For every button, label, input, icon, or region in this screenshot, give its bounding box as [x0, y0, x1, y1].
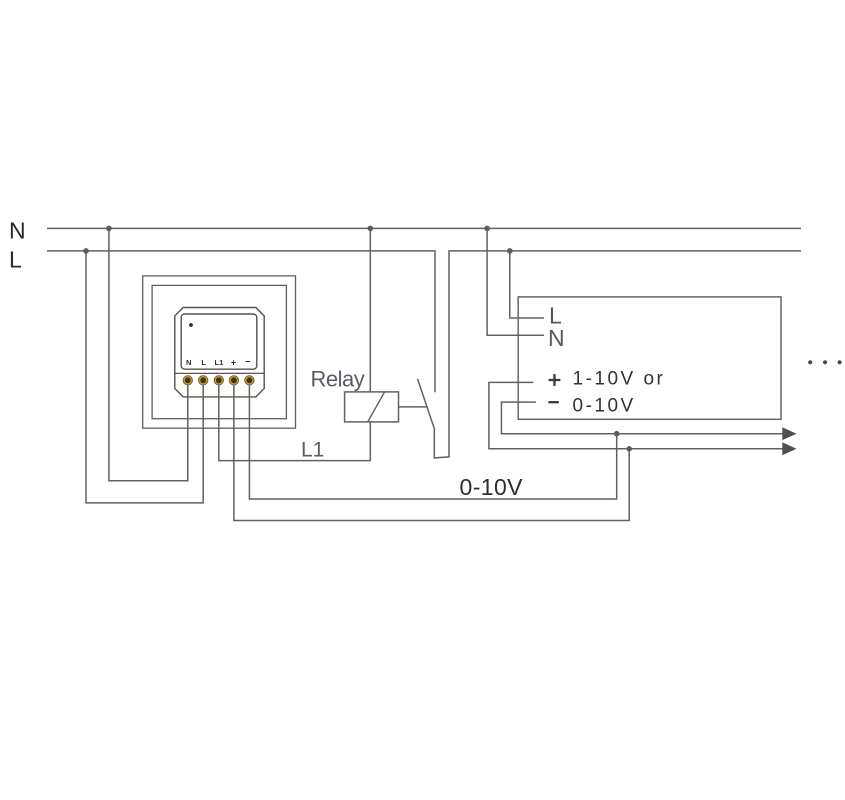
arrow head upper — [782, 427, 796, 440]
module U1 top panel — [181, 314, 257, 369]
svg-text:+: + — [231, 357, 236, 367]
terminal 3 (L1) — [214, 376, 223, 385]
junction N bus / relay feed — [368, 226, 374, 232]
terminal 5 (-) — [245, 376, 254, 385]
svg-text:L: L — [201, 358, 206, 367]
wire driver + pin to lower arrow line — [489, 382, 793, 448]
svg-text:L1: L1 — [301, 439, 324, 462]
junction on upper arrow line — [614, 431, 620, 437]
relay K1 diagonal — [368, 392, 385, 422]
switch S1 blade — [418, 379, 435, 430]
svg-text:N: N — [186, 358, 191, 367]
wire relay K1 output to switch blade — [399, 406, 428, 408]
relay K1 box — [345, 392, 399, 422]
svg-text:N: N — [548, 325, 565, 351]
svg-text:L: L — [9, 247, 22, 273]
wire terminal + to lower arrow line — [234, 385, 629, 521]
ellipsis continuation dots — [808, 360, 842, 364]
module U1 terminal strip line — [175, 372, 264, 374]
terminal 1 (N) — [183, 376, 192, 385]
wire terminal - to upper arrow line — [249, 385, 616, 499]
wire terminal L1 to relay K1 — [219, 385, 370, 461]
wire terminal L to L bus — [86, 251, 203, 503]
junction N bus / terminal N wire — [106, 226, 112, 232]
wire L bus to driver L pin — [510, 251, 544, 318]
svg-text:−: − — [245, 356, 250, 366]
junction on lower arrow line — [626, 446, 632, 452]
module U1 LED dot — [189, 323, 193, 327]
driver pin symbol - — [548, 401, 558, 403]
svg-text:0-10V: 0-10V — [460, 474, 524, 500]
wire driver - pin to upper arrow line — [501, 402, 793, 434]
wire L bus right segment with switch pole — [434, 251, 801, 458]
module U1 body octagon — [175, 308, 264, 397]
wire N bus to driver N pin — [487, 228, 544, 335]
junction L bus / driver L wire — [507, 248, 513, 254]
junction N bus / driver N wire — [484, 226, 490, 232]
svg-text:Relay: Relay — [311, 367, 365, 392]
driver pin symbol + — [549, 374, 561, 386]
svg-text:1-10V or: 1-10V or — [573, 368, 666, 389]
wire L bus left segment to switch fixed contact — [47, 251, 435, 392]
svg-text:L1: L1 — [214, 358, 224, 367]
arrow head lower — [782, 442, 796, 455]
wire relay K1 feed from N bus — [369, 228, 371, 392]
svg-text:0-10V: 0-10V — [573, 396, 636, 417]
terminal 2 (L) — [199, 376, 208, 385]
wire terminal N to N bus — [109, 228, 188, 480]
junction L bus / terminal L wire — [83, 248, 89, 254]
wire N bus — [47, 227, 801, 229]
driver U2 box — [518, 297, 781, 419]
module inner box — [152, 285, 286, 418]
terminal 4 (+) — [229, 376, 238, 385]
svg-text:N: N — [9, 218, 26, 244]
module outer box — [143, 276, 296, 428]
